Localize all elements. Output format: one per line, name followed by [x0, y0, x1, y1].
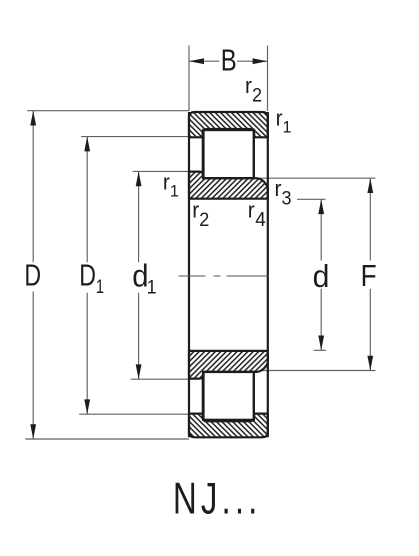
label F: [361, 259, 377, 293]
d1 extension top: [133, 170, 189, 172]
D extension top: [27, 110, 189, 112]
label d1: [132, 258, 156, 297]
svg-text:B: B: [221, 42, 237, 77]
svg-text:F: F: [361, 259, 377, 293]
B dimension line: [189, 60, 219, 62]
d dimension line vertical: [320, 199, 322, 260]
D top arrow: [30, 111, 36, 126]
d1 top arrow: [136, 171, 142, 186]
label d: [313, 258, 330, 294]
inner ring lower section: [189, 351, 268, 379]
label r2 bottom: [192, 198, 209, 230]
label r1 left: [163, 170, 179, 201]
svg-text:D: D: [24, 257, 41, 292]
D1 bottom arrow: [84, 399, 90, 414]
label r2 top: [245, 74, 262, 106]
center line: [179, 275, 269, 277]
F extension top: [255, 177, 375, 179]
label D: [24, 257, 41, 292]
strip line upper left: [202, 137, 204, 171]
label NJ...: [173, 475, 261, 524]
outer ring lower section: [189, 414, 268, 438]
F dimension line vertical: [369, 178, 371, 260]
label r1 right: [276, 106, 292, 137]
B extension line left: [188, 46, 190, 112]
D1 extension top: [81, 136, 189, 138]
D dimension line vertical: [32, 111, 34, 263]
side face lines: [189, 112, 268, 437]
D bottom arrow: [30, 424, 36, 439]
d extension stub top: [297, 198, 326, 200]
d1 extension bottom: [131, 378, 189, 380]
B left arrow: [189, 58, 204, 64]
F extension bottom: [262, 370, 375, 372]
svg-text:NJ...: NJ...: [173, 475, 261, 524]
B extension line right: [267, 46, 269, 112]
right side face: [267, 112, 269, 437]
roller upper: [203, 130, 253, 178]
roller lower: [203, 372, 253, 420]
D extension bottom: [25, 438, 189, 440]
d1 dimension line vertical: [138, 171, 140, 262]
left side face: [188, 112, 190, 437]
d extension stub bottom: [314, 349, 327, 351]
outer ring upper section: [189, 112, 268, 137]
F top arrow: [367, 178, 373, 193]
label B: [221, 42, 237, 77]
svg-text:d: d: [313, 258, 330, 294]
label D1: [79, 257, 104, 297]
d bottom arrow: [318, 336, 324, 351]
label r4: [248, 198, 266, 231]
d1 bottom arrow: [136, 364, 142, 379]
B right arrow: [253, 58, 268, 64]
label r3: [275, 177, 292, 209]
D1 dimension line vertical: [86, 137, 88, 263]
F bottom arrow: [367, 356, 373, 371]
strip line lower left: [202, 379, 204, 414]
D1 extension bottom: [79, 413, 189, 415]
inner ring upper section: [189, 172, 268, 199]
d top arrow: [318, 199, 324, 214]
D1 top arrow: [84, 137, 90, 152]
